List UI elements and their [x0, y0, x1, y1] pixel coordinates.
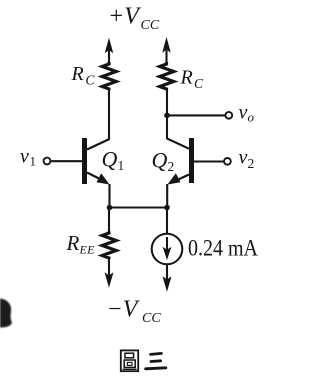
Q2 emitter diagonal with arrowhead	[174, 175, 189, 182]
label REE	[66, 231, 96, 257]
scan artifact blob at left edge	[0, 299, 12, 328]
transistor Q2	[167, 138, 194, 208]
wire: right collector vertical	[166, 89, 168, 139]
svg-text:2: 2	[248, 156, 255, 171]
svg-text:2: 2	[168, 159, 175, 174]
label RC (left)	[71, 63, 96, 88]
current source circle	[152, 234, 183, 265]
caption glyph 三 (three)	[146, 353, 166, 368]
resistor REE	[102, 232, 116, 260]
label v1	[20, 146, 36, 169]
output terminal vo circle	[225, 112, 232, 119]
wire: REE top lead	[108, 208, 110, 233]
svg-text:C: C	[86, 73, 96, 88]
svg-text:EE: EE	[79, 243, 96, 257]
svg-text:1: 1	[30, 154, 37, 169]
wire: current source top lead	[166, 208, 168, 235]
caption glyph 圖 (figure)	[121, 350, 138, 371]
+VCC supply label	[108, 4, 160, 34]
wire: right supply lead with up arrow	[163, 39, 170, 63]
transistor Q1	[82, 138, 110, 208]
svg-text:v: v	[20, 146, 29, 168]
svg-text:R: R	[180, 67, 193, 89]
Q1 emitter vertical wire	[108, 184, 110, 208]
wire: left collector vertical	[108, 89, 110, 140]
Q1 collector diagonal	[87, 139, 110, 150]
svg-text:Q: Q	[102, 147, 118, 172]
label 0.24 mA	[188, 236, 258, 261]
label Q1	[102, 147, 125, 174]
Q2 base bar	[189, 138, 194, 183]
svg-text:R: R	[71, 63, 84, 85]
svg-text:o: o	[248, 110, 255, 125]
label vo	[239, 101, 255, 124]
wire: output lead to vo	[167, 114, 226, 116]
-VCC supply label	[107, 297, 162, 327]
wire: REE bottom lead with down arrow to -VCC	[105, 259, 112, 286]
label v2	[239, 147, 255, 172]
label RC (right)	[180, 67, 205, 92]
wire: current source bottom lead with down arrow to -VCC	[163, 265, 170, 291]
svg-text:−V: −V	[107, 297, 140, 323]
svg-text:v: v	[239, 147, 248, 169]
input terminal v1 circle	[44, 158, 51, 165]
input terminal v2 circle	[224, 158, 231, 165]
svg-text:0.24 mA: 0.24 mA	[188, 236, 258, 261]
svg-text:C: C	[194, 76, 204, 91]
wire: left supply lead with up arrow	[106, 40, 113, 64]
Q1 base bar	[82, 138, 87, 184]
node: collector output junction dot	[164, 113, 170, 119]
svg-text:CC: CC	[141, 18, 160, 33]
svg-text:1: 1	[118, 158, 125, 173]
resistor RC (left)	[102, 62, 116, 90]
svg-text:R: R	[66, 231, 80, 255]
wire: v1 base lead	[51, 160, 83, 162]
wire: emitter common rail	[110, 206, 168, 208]
svg-text:+V: +V	[108, 4, 141, 30]
node: right emitter junction dot	[164, 205, 170, 211]
node: left emitter junction dot	[107, 205, 113, 211]
label Q2	[152, 148, 175, 175]
Q2 collector diagonal	[167, 139, 189, 149]
resistor RC (right)	[160, 62, 174, 90]
Q1 emitter diagonal with arrowhead	[87, 173, 102, 181]
current source internal arrow	[164, 237, 171, 259]
svg-text:v: v	[239, 101, 248, 123]
svg-text:Q: Q	[152, 148, 168, 173]
wire: v2 base lead	[194, 160, 224, 162]
Q2 emitter vertical wire	[166, 184, 168, 208]
svg-text:CC: CC	[142, 311, 161, 326]
